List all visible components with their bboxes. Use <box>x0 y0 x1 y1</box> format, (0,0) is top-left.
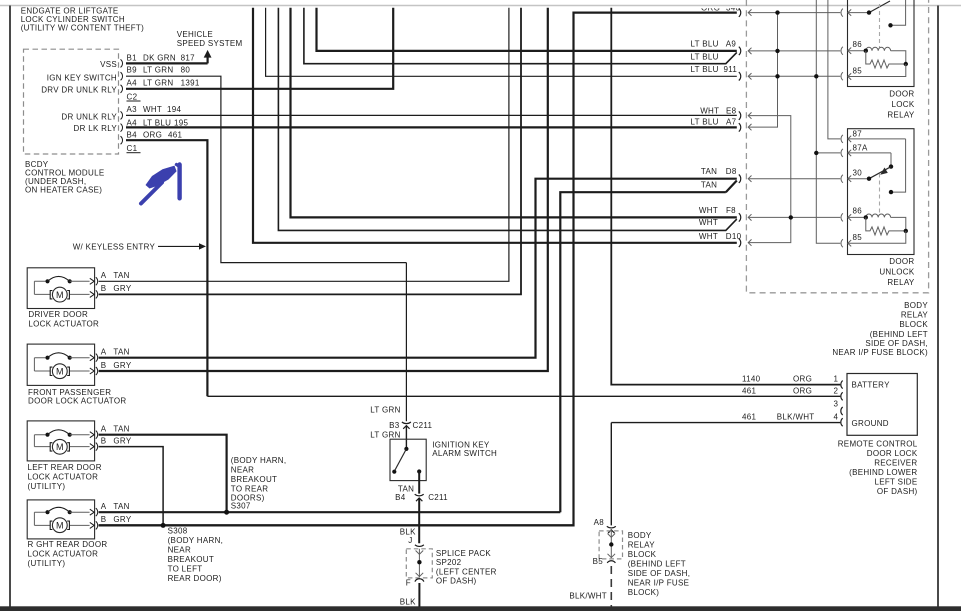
connector arc row A9 <box>739 47 741 55</box>
svg-text:BLOCK): BLOCK) <box>628 588 660 597</box>
svg-text:ORG: ORG <box>793 375 812 384</box>
label: BCM pin names <box>41 60 117 133</box>
svg-text:LT GRN: LT GRN <box>143 66 173 75</box>
label: passenger A TAN B GRY <box>101 347 132 370</box>
label: DRIVER DOOR LOCK ACTUATOR <box>28 310 99 328</box>
svg-text:TAN: TAN <box>113 502 129 511</box>
svg-text:461: 461 <box>742 386 756 395</box>
label: BODY RELAY BLOCK bottom <box>628 531 691 597</box>
front passenger door lock actuator box <box>27 344 94 385</box>
svg-text:DR UNLK RLY: DR UNLK RLY <box>61 112 117 121</box>
svg-text:TAN: TAN <box>113 271 129 280</box>
svg-text:SIDE OF DASH,: SIDE OF DASH, <box>865 339 928 348</box>
svg-text:BREAKOUT: BREAKOUT <box>231 475 277 484</box>
svg-text:TO REAR: TO REAR <box>231 485 269 494</box>
svg-text:VEHICLE: VEHICLE <box>177 30 213 39</box>
label: LT BLU A9 <box>691 39 737 48</box>
svg-text:SIDE OF DASH,: SIDE OF DASH, <box>628 569 691 578</box>
unlock relay pin arrow 87 <box>848 136 906 142</box>
label: WHT D10 <box>699 232 742 241</box>
svg-text:RELAY: RELAY <box>887 111 915 120</box>
BCM pin bracket B9 <box>121 72 123 80</box>
fuse internal wire <box>610 529 612 558</box>
svg-text:C211: C211 <box>413 421 433 430</box>
svg-text:B: B <box>101 436 107 445</box>
driver actuator motor <box>52 287 67 302</box>
svg-text:GRY: GRY <box>113 361 131 370</box>
hand-drawn blue arrow <box>141 165 180 225</box>
left rear actuator motor <box>52 439 67 454</box>
wire right rear A TAN <box>99 511 561 513</box>
gray net: 911 row to lock relay 85 <box>748 73 840 79</box>
label: WHT E8 <box>700 107 736 116</box>
driver actuator switch <box>45 279 49 283</box>
svg-text:RELAY: RELAY <box>628 540 656 549</box>
lock relay pin arrow 86 <box>848 48 866 54</box>
door unlock relay box <box>848 129 915 255</box>
page top gray edge <box>0 5 961 7</box>
svg-text:1391: 1391 <box>181 78 200 87</box>
unlock relay pin arc 86 <box>841 213 843 221</box>
wire LT BLU A9 vertical from top <box>317 8 737 51</box>
svg-text:OF DASH): OF DASH) <box>877 487 918 496</box>
body control module dashed box <box>24 49 119 154</box>
splice S308 dot <box>161 523 166 528</box>
svg-text:LOCK ACTUATOR: LOCK ACTUATOR <box>28 473 99 482</box>
svg-text:DOOR: DOOR <box>889 257 914 266</box>
svg-text:NEAR I/P FUSE: NEAR I/P FUSE <box>628 579 690 588</box>
label: BCDY control module <box>25 160 104 195</box>
unlock relay pin arc 87 <box>841 135 843 143</box>
svg-text:WHT: WHT <box>699 206 718 215</box>
label: left rear A TAN B GRY <box>101 424 132 445</box>
svg-text:RELAY: RELAY <box>887 278 915 287</box>
svg-text:A8: A8 <box>594 518 605 527</box>
svg-text:1: 1 <box>834 375 839 384</box>
label: 1140 ORG 1 <box>742 375 839 384</box>
cropped top wire label fragment <box>701 3 740 12</box>
svg-text:911: 911 <box>724 65 738 74</box>
svg-text:(BEHIND LEFT: (BEHIND LEFT <box>628 560 686 569</box>
svg-text:DK GRN: DK GRN <box>143 53 176 62</box>
svg-text:WHT: WHT <box>700 107 719 116</box>
svg-text:B1: B1 <box>127 53 138 62</box>
unlock relay pin arrow 86 <box>848 214 866 220</box>
svg-text:UNLOCK: UNLOCK <box>879 268 915 277</box>
label: B4 C211 <box>395 493 448 502</box>
BCM pin bracket VSS <box>121 59 123 67</box>
svg-text:B: B <box>101 361 107 370</box>
splice pack dot <box>417 560 421 564</box>
svg-text:86: 86 <box>853 206 863 215</box>
svg-text:SP202: SP202 <box>436 558 462 567</box>
svg-text:TO LEFT: TO LEFT <box>168 565 203 574</box>
unlock relay pin arrow 30 <box>848 176 869 182</box>
svg-text:LT BLU: LT BLU <box>691 118 719 127</box>
connector arc row F8 <box>739 213 741 221</box>
label: endgate or liftgate lock cylinder switch <box>21 6 144 32</box>
svg-text:(BODY HARN,: (BODY HARN, <box>168 536 224 545</box>
wire LT BLU (second) vertical from top <box>304 8 737 64</box>
svg-text:BLK/WHT: BLK/WHT <box>777 413 815 422</box>
wire top row ORG to right rear B GRY riser <box>99 13 737 526</box>
svg-text:ON HEATER CASE): ON HEATER CASE) <box>25 186 102 195</box>
svg-text:BLOCK: BLOCK <box>628 550 657 559</box>
svg-text:ORG: ORG <box>143 130 162 139</box>
svg-text:A4: A4 <box>127 78 138 87</box>
svg-text:SPEED SYSTEM: SPEED SYSTEM <box>177 39 243 48</box>
arrow up vehicle speed system <box>207 57 209 64</box>
svg-text:(BEHIND LOWER: (BEHIND LOWER <box>849 468 917 477</box>
junction dot F8 row <box>789 215 793 219</box>
page left border <box>9 6 11 608</box>
gray net: top ORG row to lock relay switch pin <box>748 9 840 15</box>
svg-text:J: J <box>408 536 412 545</box>
svg-text:E8: E8 <box>726 107 737 116</box>
unlock relay resistor <box>866 217 906 235</box>
svg-text:C211: C211 <box>428 493 448 502</box>
svg-text:SPLICE PACK: SPLICE PACK <box>436 549 492 558</box>
svg-text:1140: 1140 <box>742 375 761 384</box>
gray net: 87A/85 riser <box>816 0 840 243</box>
lock relay pin arrow 85 <box>848 73 851 79</box>
svg-text:86: 86 <box>853 40 863 49</box>
splice pack SP202 dashed box <box>406 549 432 578</box>
svg-text:(UTILITY W/ CONTENT THEFT): (UTILITY W/ CONTENT THEFT) <box>21 24 144 33</box>
label: right rear A TAN B GRY <box>101 502 132 524</box>
wire B4 ORG 461 down to receiver pin 2 <box>126 140 207 396</box>
label: 461 BLK/WHT 4 <box>742 413 839 422</box>
svg-text:D8: D8 <box>726 167 737 176</box>
svg-text:A: A <box>101 271 107 280</box>
svg-text:M: M <box>56 290 64 300</box>
svg-text:WHT: WHT <box>699 218 718 227</box>
svg-text:RECEIVER: RECEIVER <box>874 459 917 468</box>
unlock relay pin arc 30 <box>841 175 843 183</box>
connector arc row E8 <box>739 111 741 119</box>
svg-text:A: A <box>101 424 107 433</box>
svg-text:W/ KEYLESS ENTRY: W/ KEYLESS ENTRY <box>73 242 156 251</box>
driver door lock actuator box <box>27 268 94 309</box>
connector arc row D10 <box>739 239 741 247</box>
svg-text:M: M <box>56 442 64 452</box>
label: driver A TAN B GRY <box>101 271 132 293</box>
receiver pin arc 4 <box>841 418 843 426</box>
wire driver B GRY riser <box>99 8 521 295</box>
unlock relay coil <box>866 214 906 231</box>
ignition key alarm switch box <box>390 439 426 480</box>
svg-text:NEAR: NEAR <box>168 546 191 555</box>
svg-text:C2: C2 <box>127 92 138 101</box>
gray net: A7 row up to A9/911 junctions <box>748 13 777 131</box>
svg-text:F8: F8 <box>726 206 736 215</box>
BCM pin bracket A4b <box>121 124 123 132</box>
right rear actuator switch <box>45 510 49 514</box>
svg-text:TAN: TAN <box>701 167 717 176</box>
lock relay resistor <box>866 51 906 68</box>
svg-text:DOOR: DOOR <box>889 90 914 99</box>
svg-text:A: A <box>101 502 107 511</box>
label: pin A4 LT BLU 195 <box>127 119 189 128</box>
unlock relay mechanical link dashed <box>879 174 881 216</box>
lock relay movable contact <box>869 1 890 13</box>
body relay block fuse dashed box <box>599 531 622 559</box>
label: RIGHT REAR DOOR LOCK ACTUATOR (UTILITY) <box>28 540 108 568</box>
gray net: A9 row to lock relay 86 <box>748 48 840 54</box>
remote control door lock receiver box <box>847 374 917 436</box>
svg-text:LT BLU: LT BLU <box>691 39 719 48</box>
svg-text:30: 30 <box>853 169 863 178</box>
right rear actuator pin arrows <box>90 508 98 529</box>
svg-text:NEAR: NEAR <box>231 466 254 475</box>
svg-text:GROUND: GROUND <box>852 419 889 428</box>
connector B3 C211 break <box>402 422 411 424</box>
BCM pin bracket A3 <box>121 111 123 119</box>
svg-text:A7: A7 <box>726 118 737 127</box>
svg-text:(UTILITY): (UTILITY) <box>28 559 66 568</box>
svg-text:B4: B4 <box>127 130 138 139</box>
junction dot 87A row <box>814 151 818 155</box>
label: TAN D8 <box>701 167 737 176</box>
receiver pin arc 3 <box>841 407 843 415</box>
splice pack F connector arc <box>415 579 424 582</box>
label: IGNITION KEY ALARM SWITCH <box>432 441 497 459</box>
label: S307 body harness <box>231 456 287 511</box>
receiver pin arc 1 <box>841 381 843 389</box>
wire WHT (second) vertical from top <box>278 8 736 231</box>
wire WHT F8 vertical from top <box>291 8 737 218</box>
label: WHT F8 <box>699 206 736 215</box>
svg-text:ORG: ORG <box>793 386 812 395</box>
svg-text:LT BLU: LT BLU <box>691 53 719 62</box>
label: LT BLU A7 <box>691 118 737 127</box>
svg-text:A3: A3 <box>127 105 138 114</box>
label: vehicle speed system <box>177 30 243 48</box>
fuse B5 connector arc <box>607 561 615 563</box>
svg-text:REAR DOOR): REAR DOOR) <box>168 574 222 583</box>
svg-text:BLK/WHT: BLK/WHT <box>569 592 607 601</box>
label: DOOR UNLOCK RELAY <box>879 257 915 287</box>
svg-text:A9: A9 <box>726 39 737 48</box>
wire TAN D8 to passenger A TAN <box>99 179 737 358</box>
unlock relay pin arc 87A <box>841 149 843 157</box>
svg-text:BATTERY: BATTERY <box>852 381 891 390</box>
wire WHT D10 vertical from top <box>253 8 737 243</box>
BCM pin bracket A4 <box>121 85 123 93</box>
svg-text:(BEHIND LEFT: (BEHIND LEFT <box>870 330 928 339</box>
wire B9 LT GRN 80 <box>126 76 406 421</box>
splice pack internal wire <box>418 549 420 577</box>
label: B3 C211 <box>389 421 432 430</box>
wire 461 BLK/WHT to receiver pin 4 <box>611 423 840 526</box>
unlock relay pin arrow 85 <box>848 240 851 246</box>
svg-text:4: 4 <box>834 413 839 422</box>
wire left rear A TAN <box>99 435 227 513</box>
svg-text:GRY: GRY <box>113 515 131 524</box>
label: BODY RELAY BLOCK right <box>832 301 928 357</box>
passenger actuator motor <box>52 364 67 379</box>
svg-text:GRY: GRY <box>113 284 131 293</box>
junction dot 911 row at 777 <box>775 74 779 78</box>
svg-text:(UTILITY): (UTILITY) <box>28 482 66 491</box>
right rear door lock actuator box <box>27 500 94 539</box>
connector B4 C211 break <box>415 494 424 496</box>
svg-text:RELAY: RELAY <box>901 311 929 320</box>
label: S308 body harness <box>168 527 224 584</box>
lock relay mechanical link dashed <box>879 4 881 48</box>
BCM pin bracket B4 <box>121 136 123 144</box>
svg-text:LEFT REAR DOOR: LEFT REAR DOOR <box>28 463 102 472</box>
label: pin A3 WHT 194 <box>127 105 182 114</box>
wire LT GRN into ignition key alarm switch <box>405 426 407 449</box>
door lock relay box <box>848 0 915 87</box>
passenger actuator switch <box>45 356 49 360</box>
label: pin A4 LT GRN 1391 <box>127 78 200 87</box>
svg-text:LOCK ACTUATOR: LOCK ACTUATOR <box>28 319 99 328</box>
svg-text:817: 817 <box>181 53 195 62</box>
wire A4 LT BLU 195 / LT BLU A7 <box>126 126 737 128</box>
svg-text:ALARM SWITCH: ALARM SWITCH <box>432 449 497 458</box>
connector arc row A7 <box>739 123 741 131</box>
left rear door lock actuator box <box>27 421 94 461</box>
gray net: D8 row to unlock relay 30 <box>748 176 840 182</box>
label: pin B1 DK GRN 817 <box>127 53 196 62</box>
svg-text:BODY: BODY <box>904 301 928 310</box>
dashed BLK/WHT wire to bottom <box>610 566 612 607</box>
svg-text:195: 195 <box>174 119 188 128</box>
svg-text:B5: B5 <box>593 557 604 566</box>
fuse dot <box>609 542 613 546</box>
lock relay pin arc 85 <box>841 72 843 80</box>
svg-text:BLOCK: BLOCK <box>899 320 928 329</box>
svg-text:DOOR LOCK ACTUATOR: DOOR LOCK ACTUATOR <box>28 396 126 405</box>
label: SPLICE PACK SP202 <box>436 549 497 586</box>
label: LEFT REAR DOOR LOCK ACTUATOR (UTILITY) <box>28 463 102 491</box>
svg-text:LEFT SIDE: LEFT SIDE <box>874 478 917 487</box>
svg-text:OF DASH): OF DASH) <box>436 577 477 586</box>
svg-text:TAN: TAN <box>113 424 129 433</box>
svg-text:DRV DR UNLK RLY: DRV DR UNLK RLY <box>41 86 117 95</box>
connector arc row ORG top <box>739 8 741 16</box>
svg-text:2: 2 <box>834 386 839 395</box>
wire TAN out of ignition switch <box>418 472 420 544</box>
wire BLK to bottom <box>418 583 420 607</box>
svg-text:DR LK RLY: DR LK RLY <box>74 124 118 133</box>
svg-text:85: 85 <box>853 66 863 75</box>
svg-text:REMOTE CONTROL: REMOTE CONTROL <box>838 440 918 449</box>
page bottom bar <box>0 606 961 611</box>
svg-text:LOCK: LOCK <box>892 100 915 109</box>
ignition switch contacts <box>404 447 408 451</box>
unlock relay pin arc 85 <box>841 239 843 247</box>
label: LT BLU 911 <box>691 65 738 74</box>
svg-text:461: 461 <box>742 413 756 422</box>
svg-text:BREAKOUT: BREAKOUT <box>168 555 214 564</box>
wire LT BLU 911 vertical from top <box>266 8 737 77</box>
svg-text:87A: 87A <box>853 143 868 152</box>
left rear actuator pin arrows <box>90 431 98 451</box>
svg-text:LT BLU: LT BLU <box>143 119 171 128</box>
svg-text:(LEFT CENTER: (LEFT CENTER <box>436 568 497 577</box>
wire right rear B GRY <box>99 524 574 526</box>
svg-text:IGN KEY SWITCH: IGN KEY SWITCH <box>47 73 117 82</box>
svg-text:194: 194 <box>167 105 181 114</box>
unlock relay movable contact <box>869 167 891 179</box>
unlock relay 87 to NO contact <box>891 139 906 192</box>
svg-text:BODY: BODY <box>628 531 652 540</box>
svg-text:B: B <box>101 284 107 293</box>
lock relay pin arc switch <box>841 9 843 17</box>
wire left rear B GRY <box>99 447 164 526</box>
wire 1140 ORG riser to receiver battery <box>611 8 840 385</box>
driver actuator pin arrows <box>90 277 98 298</box>
lock relay pin arrow switch <box>848 9 869 15</box>
svg-text:LT GRN: LT GRN <box>143 78 173 87</box>
svg-text:VSS: VSS <box>100 60 117 69</box>
gray net: F8 row to unlock relay 86 <box>748 214 840 220</box>
wire A3 WHT 194 / WHT E8 <box>126 114 737 116</box>
svg-text:B4: B4 <box>395 493 406 502</box>
connector arc row 911 <box>739 72 741 80</box>
lock relay coil <box>866 47 906 64</box>
junction dot ORG row <box>775 10 779 14</box>
label: 461 ORG 2 <box>742 386 839 395</box>
svg-text:S308: S308 <box>168 527 188 536</box>
junction dot 911 row at 816 <box>814 74 818 78</box>
svg-text:TAN: TAN <box>701 181 717 190</box>
keyless entry pointer arrow <box>158 245 201 247</box>
body relay block dashed boundary <box>746 0 928 293</box>
svg-text:B3: B3 <box>389 421 400 430</box>
svg-text:DOOR LOCK: DOOR LOCK <box>867 449 918 458</box>
svg-text:87: 87 <box>853 129 863 138</box>
svg-text:B: B <box>101 515 107 524</box>
unlock relay 87A to NC contact <box>890 153 892 167</box>
gray net: E8 row down to F8/D10 <box>748 112 791 245</box>
svg-text:C1: C1 <box>127 144 138 153</box>
page right border <box>937 6 939 608</box>
passenger actuator pin arrows <box>90 354 98 375</box>
svg-text:F: F <box>406 578 411 587</box>
svg-text:LOCK ACTUATOR: LOCK ACTUATOR <box>28 550 99 559</box>
svg-text:80: 80 <box>181 66 191 75</box>
svg-text:NEAR I/P FUSE BLOCK): NEAR I/P FUSE BLOCK) <box>832 348 928 357</box>
junction dot A9 row <box>775 49 779 53</box>
svg-text:85: 85 <box>853 233 863 242</box>
svg-text:GRY: GRY <box>113 436 131 445</box>
svg-text:3: 3 <box>834 400 839 409</box>
wire B1 DK GRN 817 to vehicle speed system <box>126 62 208 64</box>
unlock relay pin arrow 87A <box>848 150 891 156</box>
gray net: unlock 87 riser <box>828 0 840 139</box>
right rear actuator motor <box>52 518 67 533</box>
svg-text:DRIVER DOOR: DRIVER DOOR <box>28 310 88 319</box>
label: FRONT PASSENGER DOOR LOCK ACTUATOR <box>28 388 126 405</box>
splice pack J connector arc <box>415 545 424 547</box>
svg-text:WHT: WHT <box>143 105 162 114</box>
svg-text:TAN: TAN <box>113 347 129 356</box>
svg-text:A4: A4 <box>127 119 138 128</box>
label: pin B9 LT GRN 80 <box>127 66 191 75</box>
fuse A8 wire arc <box>607 526 616 528</box>
svg-text:LT GRN: LT GRN <box>370 406 400 415</box>
svg-text:R GHT REAR DOOR: R GHT REAR DOOR <box>28 540 108 549</box>
svg-text:(BODY HARN,: (BODY HARN, <box>231 456 287 465</box>
svg-text:WHT: WHT <box>699 232 718 241</box>
gray net: unlock 87A stub <box>816 152 840 154</box>
lock relay pin arc 86 <box>841 47 843 55</box>
splice S307 dot <box>224 510 229 515</box>
